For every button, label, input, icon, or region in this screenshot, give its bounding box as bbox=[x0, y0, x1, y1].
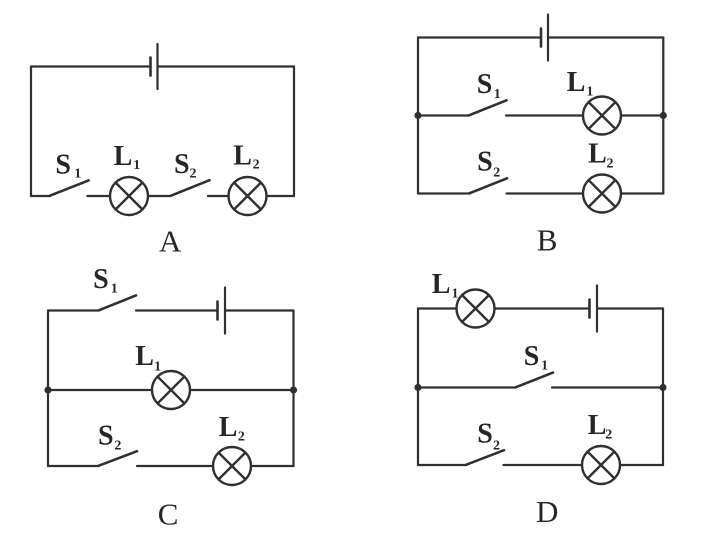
svg-text:2: 2 bbox=[190, 167, 197, 182]
wire: A S2 contact to L2 bbox=[208, 195, 229, 197]
svg-text:L: L bbox=[114, 141, 133, 172]
wire: A L1 to S2 bbox=[148, 195, 171, 197]
wire: A L2 to right corner bbox=[267, 195, 295, 197]
svg-text:C: C bbox=[158, 496, 179, 531]
svg-text:2: 2 bbox=[493, 166, 500, 181]
wire: D top stub to L1 bbox=[418, 307, 457, 309]
svg-text:L: L bbox=[567, 67, 586, 98]
battery (C) short plate bbox=[216, 302, 219, 320]
node: C right junction bbox=[290, 386, 297, 393]
lamp L1 (D) bbox=[457, 290, 495, 328]
node: C left junction bbox=[44, 386, 51, 393]
wire: D S2 contact to L2 bbox=[504, 464, 583, 466]
wire: B S1 contact to L1 bbox=[506, 114, 583, 116]
lamp L1 (C) bbox=[152, 371, 190, 409]
svg-text:2: 2 bbox=[605, 428, 612, 443]
svg-text:L: L bbox=[588, 410, 607, 441]
wire: C bottom stub to S2 bbox=[48, 465, 98, 467]
svg-text:L: L bbox=[219, 412, 238, 443]
svg-text:1: 1 bbox=[133, 158, 140, 173]
lamp L1 (B) bbox=[583, 97, 621, 135]
wire: D S1 contact to right junction bbox=[552, 386, 663, 388]
lamp L2 (A) bbox=[229, 177, 267, 215]
svg-text:1: 1 bbox=[74, 167, 81, 182]
switch S2 (D) blade bbox=[466, 450, 504, 465]
svg-text:1: 1 bbox=[494, 87, 501, 102]
node: D left junction bbox=[414, 384, 421, 391]
wire: C S2 contact to L2 bbox=[137, 465, 213, 467]
wire: B top-left segment bbox=[418, 36, 541, 38]
svg-text:1: 1 bbox=[154, 360, 161, 375]
battery (C) long plate bbox=[224, 288, 226, 334]
wire: A top-left segment bbox=[31, 65, 151, 67]
battery (B) long plate bbox=[547, 15, 549, 61]
wire: C S1 contact to battery bbox=[136, 309, 218, 311]
wire: B bottom stub to S2 bbox=[418, 192, 469, 194]
wire: B L2 to right corner bbox=[621, 192, 663, 194]
wire: D left side bbox=[417, 309, 419, 466]
svg-text:L: L bbox=[432, 269, 451, 300]
svg-text:2: 2 bbox=[253, 158, 260, 173]
svg-text:2: 2 bbox=[493, 438, 500, 453]
switch S2 (C) blade bbox=[98, 451, 137, 466]
node: B left junction bbox=[414, 112, 421, 119]
node: D right junction bbox=[659, 384, 666, 391]
battery (D) short plate bbox=[588, 300, 591, 318]
svg-text:1: 1 bbox=[586, 84, 593, 99]
svg-text:1: 1 bbox=[111, 282, 118, 297]
wire: D L2 to right corner bbox=[620, 464, 663, 466]
switch S2 (B) blade bbox=[469, 178, 507, 193]
svg-text:L: L bbox=[135, 341, 154, 372]
wire: D right side bbox=[662, 309, 664, 466]
wire: D middle stub to S1 bbox=[418, 386, 516, 388]
svg-text:2: 2 bbox=[238, 430, 245, 445]
wire: D battery to right corner bbox=[597, 307, 663, 309]
svg-text:L: L bbox=[233, 141, 252, 172]
wire: C L2 to right corner bbox=[251, 465, 294, 467]
wire: C top stub to S1 bbox=[48, 309, 99, 311]
wire: A right side bbox=[293, 67, 295, 197]
wire: C middle right segment bbox=[190, 389, 294, 391]
svg-text:2: 2 bbox=[607, 156, 614, 171]
wire: B S2 contact to L2 bbox=[507, 192, 584, 194]
svg-text:S: S bbox=[524, 341, 540, 372]
svg-text:S: S bbox=[55, 150, 71, 181]
battery (A) short plate bbox=[149, 58, 152, 76]
lamp L2 (C) bbox=[213, 447, 251, 485]
svg-text:S: S bbox=[477, 147, 493, 178]
switch S1 (D) blade bbox=[516, 373, 553, 388]
svg-text:1: 1 bbox=[541, 359, 548, 374]
wire: A left side bbox=[30, 67, 32, 197]
switch S2 (A) blade bbox=[171, 180, 210, 196]
wire: A top-right segment bbox=[158, 65, 295, 67]
switch S1 (A) blade bbox=[50, 180, 89, 195]
wire: C right side bbox=[292, 311, 294, 467]
switch S1 (B) blade bbox=[469, 100, 507, 115]
battery (A) long plate bbox=[156, 44, 158, 89]
wire: B right side bbox=[662, 38, 664, 194]
wire: C middle left segment bbox=[48, 389, 152, 391]
svg-text:2: 2 bbox=[114, 438, 121, 453]
battery (B) short plate bbox=[540, 29, 543, 47]
wire: C battery to right corner bbox=[225, 309, 294, 311]
node: B right junction bbox=[660, 112, 667, 119]
svg-text:L: L bbox=[588, 139, 607, 170]
wire: B middle stub to S1 bbox=[418, 114, 469, 116]
wire: B top-right segment bbox=[548, 36, 663, 38]
wire: A bottom stub to S1 bbox=[31, 195, 50, 197]
svg-text:S: S bbox=[174, 149, 190, 180]
svg-text:S: S bbox=[93, 264, 109, 295]
lamp L2 (B) bbox=[583, 175, 621, 213]
wire: B left side bbox=[417, 38, 419, 194]
svg-text:S: S bbox=[477, 69, 493, 100]
svg-text:S: S bbox=[98, 421, 114, 452]
svg-text:D: D bbox=[536, 494, 558, 529]
svg-text:1: 1 bbox=[452, 286, 459, 301]
wire: D L1 to battery bbox=[495, 307, 590, 309]
switch S1 (C) blade bbox=[99, 295, 136, 310]
svg-text:B: B bbox=[537, 223, 558, 258]
wire: B L1 to right junction bbox=[621, 114, 663, 116]
svg-text:A: A bbox=[159, 224, 182, 259]
lamp L1 (A) bbox=[110, 177, 148, 215]
lamp L2 (D) bbox=[582, 446, 620, 484]
wire: C left side bbox=[47, 311, 49, 467]
wire: A S1 contact to L1 bbox=[87, 195, 110, 197]
wire: D bottom stub to S2 bbox=[418, 464, 466, 466]
svg-text:S: S bbox=[477, 419, 493, 450]
battery (D) long plate bbox=[596, 286, 598, 332]
